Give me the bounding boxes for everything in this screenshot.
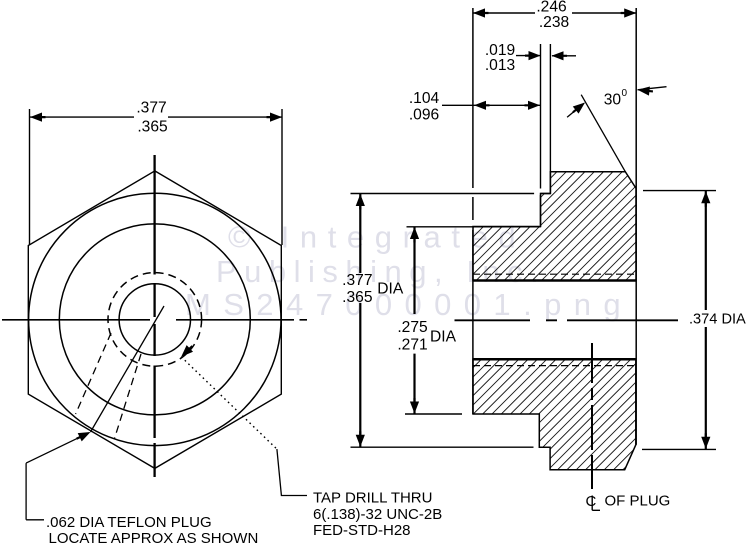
left extension/body vertical line [472, 8, 474, 414]
circle B [59, 224, 250, 415]
circle C dashed tap drill major [108, 273, 202, 367]
svg-text:30: 30 [604, 92, 622, 109]
dimension .275/.271 DIA [413, 227, 415, 415]
dashed thread line bottom [473, 365, 636, 367]
svg-text:.013: .013 [485, 57, 515, 74]
hex top edge + extension [351, 193, 551, 195]
step extension vertical line [540, 44, 542, 227]
svg-text:.271: .271 [397, 337, 427, 354]
plug hole dashed wall A [76, 333, 111, 414]
svg-text:6(.138)-32 UNC-2B: 6(.138)-32 UNC-2B [313, 506, 442, 523]
bottom hatch region [473, 359, 636, 470]
svg-text:OF PLUG: OF PLUG [605, 493, 671, 510]
leader .062 teflon plug [26, 433, 89, 463]
svg-text:.365: .365 [137, 119, 168, 136]
circle D hole [119, 284, 190, 355]
step bottom extension [405, 413, 462, 415]
svg-text:.374 DIA: .374 DIA [689, 312, 746, 328]
svg-text:DIA: DIA [430, 329, 457, 346]
svg-text:C: C [586, 493, 597, 510]
horizontal center line left view [2, 319, 307, 321]
svg-text:.104: .104 [409, 90, 440, 107]
svg-text:TAP DRILL THRU: TAP DRILL THRU [313, 490, 432, 507]
hexagon [28, 171, 281, 469]
svg-text:DIA: DIA [377, 281, 404, 298]
svg-text:LOCATE APPROX AS SHOWN: LOCATE APPROX AS SHOWN [49, 530, 259, 543]
svg-text:FED-STD-H28: FED-STD-H28 [313, 522, 411, 539]
30 degree angular dimension [567, 103, 584, 117]
svg-text:MS247000001.png: MS247000001.png [185, 287, 633, 322]
right extension/body vertical line [635, 8, 637, 445]
leader tap drill dotted [181, 357, 277, 449]
svg-text:.062 DIA TEFLON PLUG: .062 DIA TEFLON PLUG [46, 514, 212, 531]
svg-text:.377: .377 [136, 100, 166, 117]
svg-text:.238: .238 [539, 14, 569, 31]
vertical center line left view [153, 155, 155, 477]
svg-text:.377: .377 [342, 272, 372, 289]
svg-text:.096: .096 [409, 107, 439, 124]
dimension .246/.238 [473, 12, 636, 14]
step top edge + extension [407, 226, 541, 228]
dimension .374 DIA [643, 190, 716, 192]
plug hole axis line [91, 306, 165, 432]
dimension .377/.365 DIA right view [359, 194, 361, 448]
watermark [185, 220, 633, 323]
boss left extension vertical line [549, 44, 551, 194]
dimension .377/.365 across flats [30, 109, 283, 245]
30 degree construction line [581, 95, 625, 172]
dimension .104/.096 [442, 104, 540, 106]
circle A outer [29, 193, 281, 445]
plug hole dashed wall B [115, 354, 142, 439]
dimension .019/.013 [516, 55, 540, 57]
svg-text:0: 0 [622, 88, 628, 99]
top hatch region [473, 172, 636, 281]
dashed thread line top [473, 273, 636, 275]
right view horizontal center line [455, 319, 679, 321]
bore top thick line [473, 279, 636, 282]
svg-text:.365: .365 [342, 289, 373, 306]
svg-text:.275: .275 [397, 319, 428, 336]
hex bottom edge + extension [351, 446, 551, 448]
bore bottom thick line [473, 358, 636, 361]
centerline of plug dashed vertical [591, 343, 593, 489]
